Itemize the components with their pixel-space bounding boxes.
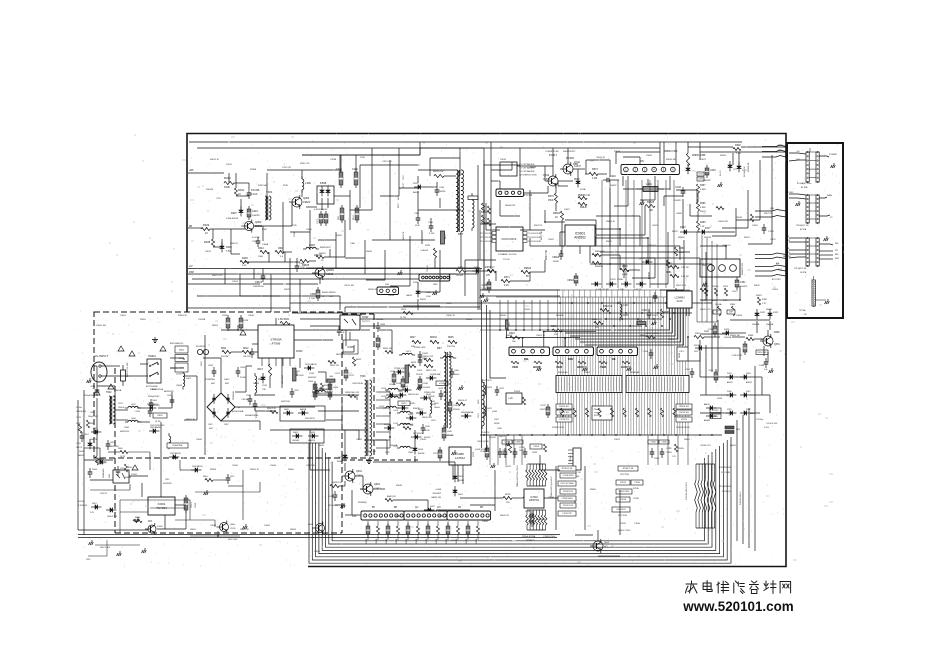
capacitor C319 (319, 211, 323, 226)
wire (253, 269, 255, 279)
wire (622, 176, 624, 186)
transformer tap wire (376, 415, 390, 417)
wire strip drop (567, 393, 569, 436)
resistor R341 (594, 321, 603, 324)
capacitor C323 (355, 205, 359, 223)
capacitor C354 (647, 309, 652, 319)
optocoupler IC604 box (340, 315, 360, 330)
svg-text:BLP25V010A: BLP25V010A (146, 385, 158, 388)
svg-text:TO D8: TO D8 (503, 259, 510, 261)
wire (259, 482, 261, 492)
svg-text:C648: C648 (396, 383, 402, 385)
regulator IC986 LA7812 (449, 447, 471, 465)
wire (771, 155, 773, 244)
svg-text:90/065KV: 90/065KV (308, 377, 317, 379)
svg-text:SUB12B=480UH XLB: SUB12B=480UH XLB (686, 482, 688, 500)
wire (334, 195, 350, 197)
resistor R302 (646, 335, 655, 338)
svg-text:4.7UF/50V: 4.7UF/50V (78, 505, 88, 507)
wire (84, 459, 113, 461)
wire strip drop (671, 393, 673, 436)
svg-text:2200UF/16V: 2200UF/16V (76, 411, 87, 413)
wire strip drop (573, 393, 575, 436)
wire (523, 192, 548, 194)
connector D10 redraw (553, 347, 593, 356)
wire (477, 165, 479, 310)
wire (697, 193, 699, 202)
capacitor C610b (106, 440, 111, 450)
wire bottom bus A (78, 534, 560, 536)
svg-text:F7906: F7906 (272, 342, 281, 346)
junction (609, 263, 611, 265)
wire (717, 320, 719, 372)
diode D323b (768, 309, 773, 319)
wire strip drop (619, 393, 621, 436)
wire (510, 280, 530, 282)
wire (344, 463, 346, 471)
capacitor C911A (253, 400, 258, 410)
wire (252, 343, 258, 345)
svg-text:L423/L425: L423/L425 (482, 380, 492, 382)
wire (700, 151, 786, 153)
svg-text:D327: D327 (746, 391, 751, 393)
svg-text:R365: R365 (700, 222, 706, 224)
wire (464, 260, 466, 296)
mcu LC849 redraw (667, 291, 692, 308)
wire mid bus 1 (290, 302, 712, 304)
resistor R330 (224, 181, 234, 184)
wire (213, 246, 222, 248)
wire (654, 258, 656, 278)
wire (595, 237, 648, 239)
svg-text:RT040-R7047: RT040-R7047 (719, 486, 732, 488)
wire bus line (565, 297, 567, 376)
svg-text:C329: C329 (352, 168, 358, 171)
svg-text:L622: L622 (487, 408, 493, 410)
wire (763, 346, 765, 356)
wire (248, 183, 250, 189)
junction (543, 331, 545, 333)
wire routing loop 4 (319, 444, 720, 554)
wire strip drop (581, 393, 583, 436)
svg-text:R397: R397 (704, 331, 710, 333)
wire (567, 148, 569, 164)
wire (230, 229, 232, 254)
svg-text:D902: D902 (97, 458, 102, 460)
svg-text:16K32.7K: 16K32.7K (403, 231, 405, 240)
svg-text:ELB4V010A: ELB4V010A (173, 444, 184, 447)
capacitor C7085 box (513, 440, 523, 444)
resistor R719 (673, 408, 676, 417)
junction (675, 434, 677, 436)
wire (789, 198, 806, 199)
transformer tap wire (376, 399, 390, 401)
resistor R365D (704, 288, 707, 296)
wire (736, 376, 744, 378)
svg-text:C9ALB=990C XLB=46UH: C9ALB=990C XLB=46UH (550, 476, 553, 497)
wire (254, 408, 256, 411)
wire (397, 521, 399, 526)
wire bus line (619, 297, 621, 376)
svg-text:AM632: AM632 (746, 381, 752, 384)
svg-text:R7001: R7001 (584, 372, 591, 374)
capacitor C7062 box (502, 440, 512, 444)
ground (652, 320, 657, 325)
capacitor C320 (324, 211, 328, 226)
inductor L321 (643, 187, 658, 192)
diode D313b (472, 269, 482, 274)
resistor R381 (670, 274, 679, 277)
transformer FBT flyback transformer (444, 352, 451, 428)
wire (484, 164, 520, 166)
svg-text:+: + (238, 406, 240, 410)
connector panel header B2 (806, 194, 819, 223)
wire (120, 499, 190, 501)
wire (539, 455, 541, 470)
diode D617b (416, 411, 426, 416)
wire (564, 338, 566, 347)
wire routing loop 7 (329, 455, 708, 544)
svg-text:OSC1: OSC1 (191, 501, 193, 508)
svg-text:C7018 RUF9: C7018 RUF9 (562, 475, 573, 477)
wire (711, 264, 713, 320)
junction (547, 329, 549, 331)
svg-text:R9602: R9602 (524, 267, 532, 270)
wire (640, 257, 655, 259)
svg-text:Q605: Q605 (604, 542, 610, 544)
transformer tap wire (376, 439, 390, 441)
junction (389, 424, 391, 426)
wire (667, 232, 669, 284)
svg-text:R342: R342 (551, 325, 557, 328)
junction (625, 312, 627, 314)
svg-text:R9677 1K: R9677 1K (764, 213, 773, 215)
wire (627, 176, 629, 206)
capacitor C603 (313, 381, 317, 400)
wire (543, 332, 545, 347)
wire (682, 199, 684, 229)
capacitor C7017 (546, 404, 550, 418)
wire (575, 534, 593, 536)
wire strip drop (676, 393, 678, 436)
svg-text:+B5: +B5 (189, 169, 194, 172)
resistor R384A value box (713, 310, 721, 314)
svg-text:C9617: C9617 (446, 303, 453, 305)
connector TO D4 (496, 189, 524, 197)
resistor R716 (635, 408, 638, 417)
junction (651, 434, 653, 436)
resistor R7019c box (616, 489, 632, 494)
wire bus drop (641, 180, 643, 288)
svg-text:L600: L600 (329, 376, 333, 378)
wire strip drop (638, 393, 640, 436)
svg-text:R7082 1.3K: R7082 1.3K (623, 468, 634, 470)
resistor R329 (201, 227, 210, 230)
capacitor C609 (184, 495, 188, 513)
transistor Q601 (342, 469, 355, 483)
svg-text:D621/D623L: D621/D623L (413, 433, 424, 435)
junction (389, 412, 391, 414)
transformer tap wire (376, 431, 390, 433)
mcu pin wire (677, 308, 679, 316)
wire (767, 330, 769, 336)
wire (387, 534, 389, 540)
wire (309, 210, 311, 250)
wire drop (489, 435, 491, 465)
wire (732, 153, 734, 165)
svg-text:R615: R615 (402, 403, 408, 405)
svg-text:22PC7045: 22PC7045 (618, 515, 627, 517)
wire (557, 181, 559, 186)
ground (769, 368, 774, 373)
wire (482, 270, 488, 272)
svg-text:C9618: C9618 (500, 159, 507, 161)
diode D611 (91, 430, 101, 435)
svg-text:C9602A: C9602A (114, 389, 122, 392)
svg-text:R9646 PIN: R9646 PIN (505, 205, 515, 207)
wire drop (505, 435, 507, 465)
svg-text:D502B: D502B (366, 538, 368, 544)
svg-text:AC-INPUT: AC-INPUT (94, 354, 108, 358)
svg-text:R681 T3.1L 25K: R681 T3.1L 25K (127, 362, 129, 377)
wire (486, 229, 500, 231)
wire (558, 180, 573, 182)
wire (629, 269, 640, 271)
wire (560, 231, 565, 233)
diode D323 (722, 331, 732, 336)
svg-text:SN14B: SN14B (694, 345, 700, 347)
resistor R624b (403, 311, 413, 314)
wire (427, 500, 429, 510)
mcu pin wire (680, 308, 682, 316)
diode D602z (149, 429, 159, 434)
svg-text:C9633: C9633 (420, 439, 427, 441)
wire mid bus 4 (310, 325, 642, 327)
svg-text:R9636 1K: R9636 1K (606, 221, 616, 223)
wire (228, 329, 258, 331)
wire (595, 245, 680, 247)
wire (748, 243, 772, 245)
svg-text:D9ALB=990C XLB=720UH: D9ALB=990C XLB=720UH (516, 465, 519, 487)
junction (613, 325, 615, 327)
wire (380, 195, 399, 197)
wire (750, 412, 760, 414)
wire bus drop (649, 180, 651, 288)
ground (459, 385, 464, 390)
svg-text:R635: R635 (448, 337, 454, 339)
svg-text:C329B: C329B (330, 159, 337, 161)
connector D04 (404, 511, 448, 520)
svg-text:R9619 1K: R9619 1K (210, 159, 220, 161)
transistor Q9603 (312, 266, 325, 280)
wire (429, 158, 431, 176)
wire (96, 398, 98, 456)
wire bundle (486, 305, 488, 452)
capacitor C321 (256, 237, 261, 247)
wire (417, 282, 419, 287)
svg-text:D907: D907 (231, 212, 237, 215)
wire bus line (576, 297, 578, 376)
junction (495, 434, 497, 436)
svg-text:C699720UH: C699720UH (352, 383, 364, 385)
wire (529, 272, 531, 281)
diode D331 (726, 375, 736, 380)
diode D313 (728, 161, 733, 171)
capacitor C312 boxed label (697, 172, 704, 176)
svg-text:R615: R615 (411, 362, 417, 364)
svg-text:VER: VER (600, 365, 607, 369)
wire (819, 250, 833, 252)
svg-text:C9653: C9653 (760, 339, 767, 341)
wire (106, 540, 108, 556)
svg-text:9B: 9B (189, 225, 192, 228)
svg-text:R573: R573 (592, 168, 598, 171)
svg-text:0047: 0047 (225, 383, 229, 385)
svg-text:C640: C640 (423, 383, 429, 385)
wire (447, 534, 449, 540)
wire (188, 227, 201, 229)
svg-text:R7016: R7016 (620, 499, 627, 501)
svg-text:TLP721: TLP721 (362, 321, 370, 323)
wire bus line (652, 297, 654, 376)
resistor R718 (660, 408, 663, 417)
svg-text:PC336: PC336 (566, 156, 574, 160)
wire vertical bus right (716, 244, 718, 322)
resistor R342 (552, 329, 562, 332)
wire strip drop (684, 393, 686, 436)
svg-text:22/250V: 22/250V (176, 374, 183, 376)
diode D602d (226, 408, 230, 418)
wire (269, 376, 271, 388)
wire bus (192, 278, 430, 280)
transistor Q512 (545, 174, 558, 188)
resistor R375 (456, 269, 466, 272)
svg-text:C9634: C9634 (360, 489, 367, 491)
wire (231, 253, 240, 255)
diode D620b (396, 393, 406, 398)
svg-text:120UF: 120UF (654, 458, 660, 460)
wire (359, 165, 361, 208)
resistor R7005 box (556, 410, 572, 415)
wire (379, 329, 392, 331)
svg-text:R7036: R7036 (633, 488, 639, 490)
svg-text:D02: D02 (439, 515, 444, 518)
svg-text:D502B: D502B (446, 538, 448, 544)
ground (480, 293, 485, 298)
resistor R615 box (398, 401, 410, 406)
wire (573, 163, 578, 165)
switch SW901 box (147, 359, 161, 383)
transformer tap wire (376, 407, 390, 409)
junction (687, 434, 689, 436)
junction (531, 434, 533, 436)
capacitor C640 (418, 376, 422, 391)
junction (699, 434, 701, 436)
wire (129, 475, 148, 477)
wire (699, 352, 701, 361)
capacitor C640b (442, 425, 446, 441)
wire (465, 259, 496, 261)
svg-text:AA612: AA612 (704, 403, 710, 406)
transistor Q605 (590, 539, 603, 553)
resistor R751 (376, 526, 379, 534)
svg-text:DB076-OIL3: DB076-OIL3 (422, 417, 432, 419)
wire vertical bus (490, 142, 492, 269)
ground (152, 337, 158, 343)
svg-text:C9646: C9646 (270, 465, 277, 467)
diode D608 (106, 508, 116, 513)
svg-text:C960: C960 (299, 263, 305, 265)
svg-text:FBT: FBT (437, 347, 442, 350)
svg-text:D326: D326 (746, 409, 751, 411)
diode D607 (91, 505, 101, 510)
svg-text:C9620: C9620 (646, 155, 653, 157)
svg-text:1LFP11: 1LFP11 (100, 493, 108, 495)
svg-text:680PF/2KV: 680PF/2KV (120, 431, 130, 433)
capacitor C615 (226, 474, 231, 484)
resistor R627 (412, 340, 421, 343)
svg-text:Q311: Q311 (574, 161, 581, 164)
capacitor C9602 (559, 250, 564, 260)
svg-text:960PFEKV: 960PFEKV (319, 393, 328, 395)
wire routing loop 3 (316, 439, 724, 557)
wire (284, 252, 286, 262)
svg-text:CX622: CX622 (422, 353, 429, 355)
resistor R628 (523, 496, 532, 499)
wire (690, 231, 700, 233)
diode D625 (453, 472, 458, 482)
wire (540, 469, 560, 471)
svg-text:C825: C825 (385, 452, 390, 454)
wire (235, 406, 315, 408)
wire (457, 534, 459, 540)
wire (494, 470, 496, 511)
wire (421, 230, 423, 244)
wire (393, 499, 428, 501)
wire (335, 232, 337, 268)
wire bus line (597, 297, 599, 376)
wire drop (507, 300, 509, 330)
svg-text:R0CT: R0CT (398, 202, 400, 208)
diode D911 (414, 185, 424, 190)
connector D9 (597, 347, 637, 356)
wire strip drop (559, 393, 561, 436)
resistor R347 (275, 250, 284, 253)
svg-text:ELB4V010A: ELB4V010A (152, 388, 164, 391)
resistor R7025 box (676, 417, 692, 422)
transistor Q9601b (217, 521, 229, 534)
wire routing loop 2 (312, 435, 727, 561)
wire (460, 497, 503, 499)
wire (712, 235, 736, 237)
capacitor C932 (250, 348, 255, 358)
capacitor C659 (530, 511, 534, 527)
wire (254, 225, 262, 227)
svg-text:D602 BA/5B: D602 BA/5B (150, 426, 161, 429)
wire (427, 521, 429, 526)
svg-text:C7019 RUF9: C7019 RUF9 (561, 498, 572, 500)
svg-text:680PF/2KV: 680PF/2KV (164, 391, 174, 393)
svg-text:R620 1W: R620 1W (330, 365, 339, 367)
svg-text:C310: C310 (336, 168, 342, 171)
svg-text:R347: R347 (278, 247, 284, 250)
wire strip drop (557, 393, 559, 436)
inductor L619 (397, 446, 413, 448)
svg-text:C7094: C7094 (533, 446, 539, 448)
wire (560, 316, 670, 330)
resistor R926 slug (405, 365, 409, 383)
ground (366, 458, 372, 464)
